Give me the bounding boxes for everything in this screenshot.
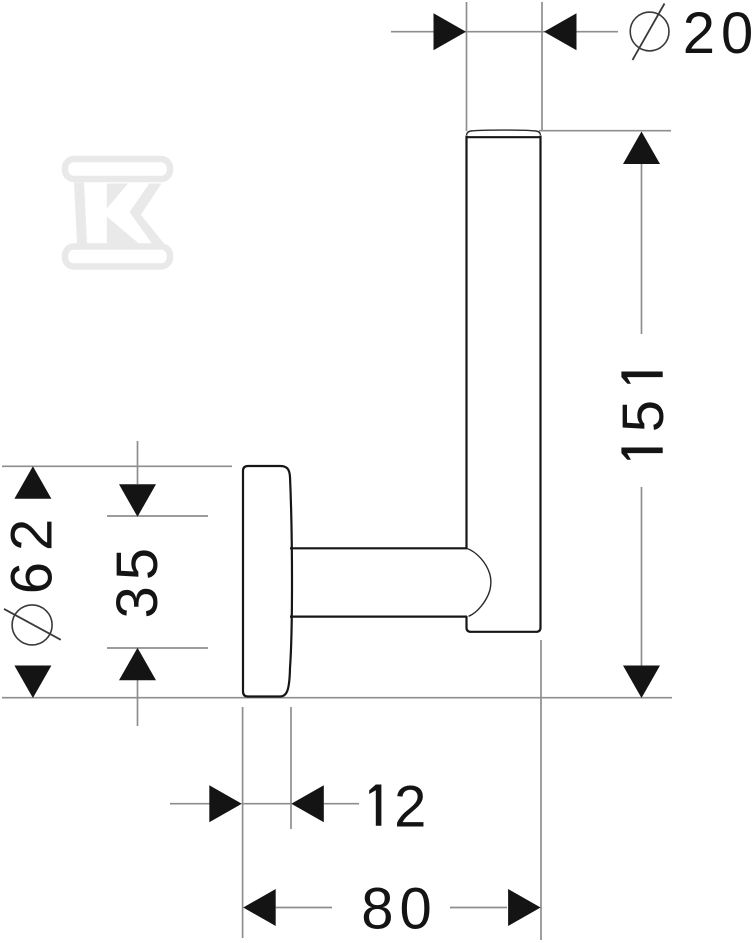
svg-text:80: 80 <box>361 877 438 942</box>
svg-text:20: 20 <box>683 1 753 66</box>
svg-text:35: 35 <box>105 542 170 619</box>
svg-text:62: 62 <box>0 508 65 595</box>
svg-text:5: 5 <box>611 400 676 432</box>
svg-text:2: 2 <box>394 775 426 840</box>
